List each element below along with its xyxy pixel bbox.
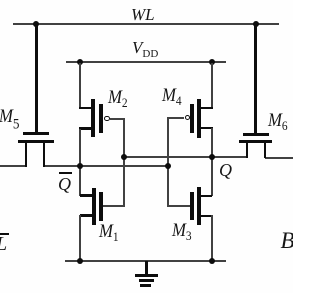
wire: M2 drain down to QB node and M1 drain: [79, 129, 81, 196]
transistor M2 bubble: [104, 116, 109, 121]
label QB: [58, 175, 71, 193]
transistor M3 NMOS channel bar: [197, 187, 201, 225]
wire: M4 drain down to Q node and M3 drain: [211, 128, 213, 196]
transistor M1 drain lead: [80, 194, 92, 197]
transistor M6 channel bar: [239, 140, 272, 143]
ground symbol bar 1: [135, 274, 158, 277]
ground symbol bar 3: [140, 284, 151, 287]
wire: M4 gate stub: [167, 117, 184, 119]
transistor M4 source lead: [201, 107, 213, 110]
wire: gate feed WL to M5 (thick): [35, 25, 38, 133]
label WL: [131, 6, 155, 23]
node Q junction at gate vertical: [121, 154, 127, 160]
transistor M4 gate bar: [190, 104, 194, 134]
wire: M3 gate stub: [168, 205, 190, 207]
wire: left cross-coupling gate vertical (M1/M2 gates to Q): [123, 118, 125, 207]
wire: VDD to M2 source: [79, 63, 81, 108]
transistor M1 NMOS channel bar: [92, 188, 96, 225]
ground symbol stem: [145, 261, 148, 275]
label QB overbar: [59, 172, 72, 174]
transistor M5 right lead: [43, 143, 45, 167]
transistor M4 bubble: [185, 115, 190, 120]
wire: BLB stub to left edge: [0, 165, 27, 167]
node QB junction at M1/M2 drains: [77, 163, 83, 169]
transistor M2 source lead: [79, 107, 92, 110]
transistor M4 drain lead: [201, 127, 213, 130]
node WL junction right: [253, 21, 259, 27]
transistor M2 gate bar: [99, 104, 103, 133]
wire: ground rail: [65, 260, 226, 262]
label M4: [162, 86, 182, 107]
wire: M2 gate stub: [110, 118, 125, 120]
transistor M5 gate bar: [23, 132, 49, 135]
transistor M1 gate bar: [99, 192, 103, 221]
transistor M6 left lead: [246, 143, 248, 158]
transistor M2 drain lead: [79, 127, 92, 130]
wire: right cross-coupling gate vertical (M3/M4 gates to QB): [167, 117, 169, 207]
wire: WL word line rail: [13, 23, 279, 25]
node WL junction left: [33, 21, 39, 27]
wire: VDD to M4 source: [211, 63, 213, 108]
wire: node Q horizontal line: [124, 156, 247, 158]
label BL remnant B at right edge: [281, 229, 295, 252]
node ground junction left: [77, 258, 83, 264]
wire: BL stub to right edge: [265, 157, 293, 159]
node QB junction at M3/M4 gate vertical: [165, 163, 171, 169]
wire: VDD power rail: [66, 61, 226, 63]
label M2: [108, 88, 128, 109]
label M3: [172, 221, 192, 242]
transistor M6 gate bar: [243, 133, 269, 136]
transistor M1 source lead: [80, 214, 92, 217]
transistor M5 left lead: [25, 143, 27, 167]
label Q: [219, 161, 232, 179]
node VDD junction left: [77, 59, 83, 65]
label BLB remnant L at left edge: [0, 234, 7, 254]
node Q junction at M3/M4 drains: [209, 154, 215, 160]
wire: gate feed WL to M6 (thick): [254, 25, 257, 133]
node ground junction right: [209, 258, 215, 264]
wire: M1 source down to ground rail: [79, 215, 81, 261]
transistor M4 PMOS channel bar: [197, 99, 201, 138]
label BLB remnant overbar at left edge: [0, 233, 9, 235]
transistor M6 right lead: [264, 143, 266, 159]
label VDD: [132, 39, 158, 60]
label M1: [99, 222, 119, 243]
transistor M5 channel bar: [18, 140, 54, 143]
wire: M1 gate stub: [103, 205, 124, 207]
transistor M3 source lead: [201, 215, 212, 218]
label M5: [0, 107, 20, 133]
ground symbol bar 2: [139, 279, 155, 282]
wire: node QB horizontal line: [43, 165, 169, 167]
node VDD junction right: [209, 59, 215, 65]
transistor M3 drain lead: [201, 195, 212, 198]
transistor M3 gate bar: [190, 192, 194, 220]
label M6: [268, 111, 288, 132]
transistor M2 PMOS channel bar: [91, 99, 95, 137]
wire: M3 source down to ground rail: [211, 215, 213, 261]
